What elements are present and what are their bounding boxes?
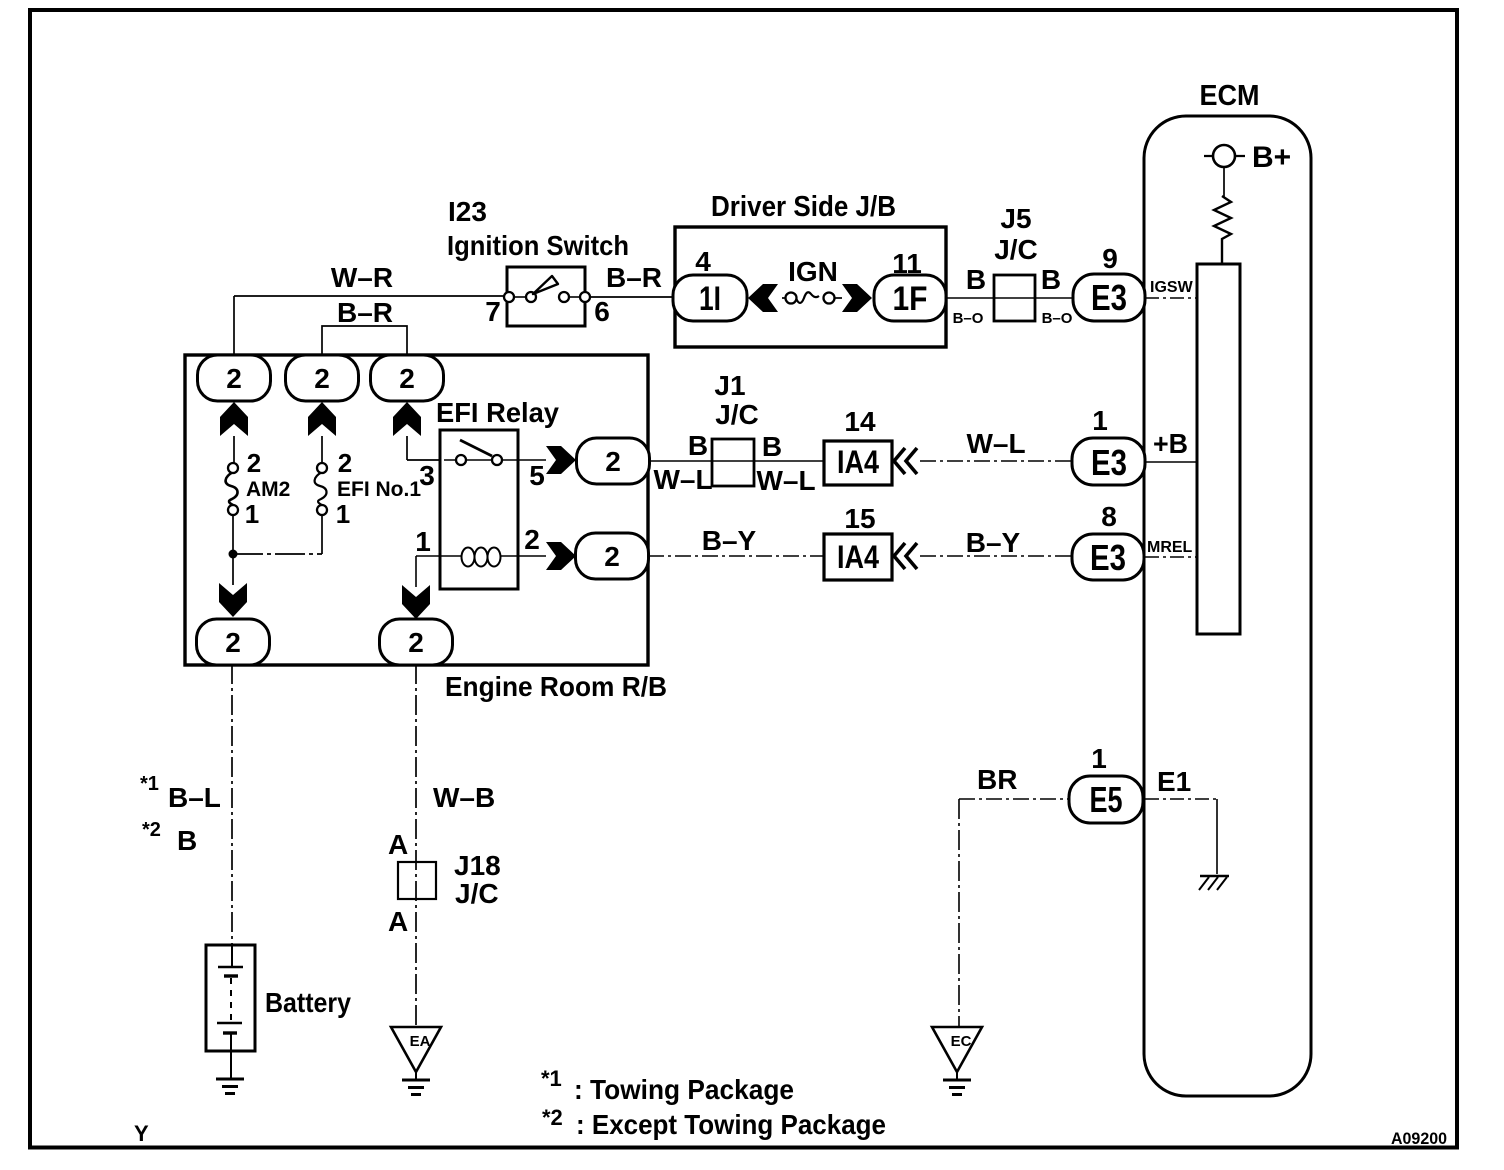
svg-text:J1: J1: [714, 370, 745, 401]
svg-text:A: A: [388, 906, 408, 937]
svg-text:1: 1: [1091, 743, 1107, 774]
svg-text:Battery: Battery: [265, 987, 351, 1018]
svg-text:IA4: IA4: [837, 539, 879, 575]
svg-text:*2: *2: [542, 1105, 563, 1130]
svg-text:EA: EA: [410, 1033, 431, 1050]
svg-text:MREL: MREL: [1147, 539, 1193, 556]
svg-text:6: 6: [594, 296, 610, 327]
svg-text:E3: E3: [1091, 442, 1127, 483]
svg-text:B–O: B–O: [1042, 310, 1073, 327]
svg-text:E3: E3: [1091, 277, 1127, 318]
svg-text:J5: J5: [1000, 203, 1031, 234]
svg-text:A09200: A09200: [1391, 1129, 1447, 1148]
svg-text:1: 1: [1092, 405, 1108, 436]
svg-text:A: A: [388, 829, 408, 860]
svg-text:B: B: [177, 825, 197, 856]
svg-text:2: 2: [247, 448, 261, 478]
svg-text:11: 11: [892, 248, 922, 279]
svg-text:EFI No.1: EFI No.1: [337, 478, 421, 501]
svg-text:J/C: J/C: [715, 399, 759, 430]
svg-text:1: 1: [415, 526, 431, 557]
svg-text:B–Y: B–Y: [966, 527, 1021, 558]
svg-text:IA4: IA4: [837, 444, 879, 480]
svg-text:E1: E1: [1157, 766, 1191, 797]
svg-text:2: 2: [524, 524, 540, 555]
svg-text:IGSW: IGSW: [1150, 279, 1194, 296]
svg-text:1I: 1I: [699, 280, 721, 318]
svg-text:B+: B+: [1252, 141, 1291, 174]
svg-text:Ignition Switch: Ignition Switch: [447, 230, 629, 261]
svg-text:*1: *1: [140, 773, 159, 795]
svg-text:1: 1: [336, 499, 350, 529]
svg-text:J18: J18: [454, 850, 501, 881]
svg-text:14: 14: [844, 406, 876, 437]
svg-text:J/C: J/C: [455, 878, 499, 909]
svg-text:*1: *1: [541, 1066, 562, 1091]
svg-text:3: 3: [419, 460, 435, 491]
svg-text:B–L: B–L: [168, 782, 221, 813]
svg-text:9: 9: [1102, 243, 1118, 274]
svg-text:IGN: IGN: [788, 256, 838, 287]
svg-text:1F: 1F: [893, 280, 928, 318]
svg-text:15: 15: [844, 503, 875, 534]
svg-text:: Except Towing Package: : Except Towing Package: [576, 1109, 886, 1140]
svg-text:B: B: [688, 430, 708, 461]
svg-text:B: B: [762, 431, 782, 462]
svg-text:8: 8: [1101, 501, 1117, 532]
svg-text:7: 7: [485, 296, 501, 327]
svg-text:I23: I23: [448, 196, 487, 227]
svg-text:B–Y: B–Y: [702, 525, 757, 556]
svg-text:ECM: ECM: [1200, 80, 1260, 112]
svg-text:BR: BR: [977, 764, 1017, 795]
svg-text:EC: EC: [951, 1033, 972, 1050]
svg-text:5: 5: [529, 460, 545, 491]
svg-text:4: 4: [695, 246, 711, 277]
svg-text:W–R: W–R: [331, 262, 393, 293]
svg-text:Engine Room R/B: Engine Room R/B: [445, 671, 667, 702]
svg-text:Y: Y: [134, 1121, 149, 1146]
svg-text:*2: *2: [142, 819, 161, 841]
svg-text:J/C: J/C: [994, 234, 1038, 265]
svg-text:EFI Relay: EFI Relay: [436, 397, 559, 428]
svg-text:E5: E5: [1090, 779, 1123, 820]
svg-text:B: B: [1041, 264, 1061, 295]
svg-text:W–B: W–B: [433, 782, 495, 813]
svg-text:B: B: [966, 264, 986, 295]
svg-text:Driver Side J/B: Driver Side J/B: [711, 191, 896, 223]
svg-text:B–O: B–O: [953, 310, 984, 327]
svg-text:AM2: AM2: [246, 478, 290, 501]
svg-text:W–L: W–L: [653, 464, 712, 495]
svg-text:B–R: B–R: [337, 297, 393, 328]
svg-text:E3: E3: [1090, 537, 1126, 578]
svg-text:B–R: B–R: [606, 262, 662, 293]
svg-text:+B: +B: [1153, 428, 1188, 459]
svg-text:W–L: W–L: [756, 465, 815, 496]
svg-text:: Towing Package: : Towing Package: [574, 1074, 794, 1105]
svg-text:W–L: W–L: [966, 428, 1025, 459]
svg-text:1: 1: [245, 499, 259, 529]
svg-text:2: 2: [338, 448, 352, 478]
